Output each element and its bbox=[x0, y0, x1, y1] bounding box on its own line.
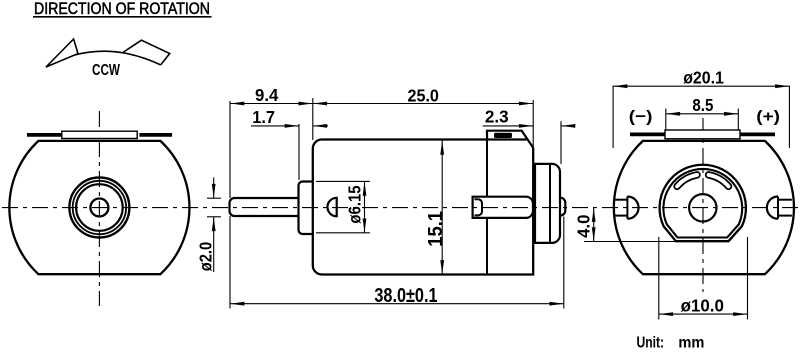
svg-text:4.0: 4.0 bbox=[573, 214, 593, 238]
end cap bbox=[535, 164, 560, 243]
svg-text:ø10.0: ø10.0 bbox=[681, 296, 725, 316]
svg-text:ø6.15: ø6.15 bbox=[345, 185, 365, 223]
CCW arrowhead bbox=[46, 39, 78, 67]
CCW flag bbox=[122, 40, 170, 65]
dim 38.0 extension right bbox=[563, 217, 565, 309]
vertical centerline bbox=[98, 111, 100, 306]
svg-text:ø20.1: ø20.1 bbox=[683, 68, 724, 88]
dim 38.0 bbox=[230, 303, 564, 305]
CCW rotation arrow arc bbox=[46, 51, 161, 67]
bushing bbox=[299, 182, 314, 235]
bearing boss inner bbox=[663, 169, 742, 238]
brush plate bbox=[62, 131, 137, 138]
dim extension line body left edge bbox=[312, 98, 314, 140]
left ear bbox=[614, 197, 639, 219]
dim 8.5 bbox=[666, 113, 739, 115]
motor body bbox=[313, 140, 533, 275]
dim 15.1 bbox=[441, 141, 443, 275]
dim 8.5 extension lines bbox=[665, 109, 667, 130]
svg-text:ø2.0: ø2.0 bbox=[196, 242, 216, 272]
dim 1.7 bbox=[251, 125, 299, 127]
svg-text:8.5: 8.5 bbox=[692, 95, 713, 115]
dim 1.7 extension line bushing front bbox=[298, 124, 300, 180]
rear shaft boss cylinder bbox=[473, 197, 533, 218]
dim Ø20.1 bbox=[613, 85, 789, 87]
dim Ø6.15 extension lines bbox=[316, 180, 370, 182]
svg-text:DIRECTION OF ROTATION: DIRECTION OF ROTATION bbox=[34, 0, 210, 18]
terminal tab bbox=[487, 131, 533, 148]
bearing boss outer bbox=[660, 165, 746, 241]
dim 4.0 extension bbox=[584, 241, 676, 243]
svg-text:25.0: 25.0 bbox=[408, 85, 440, 105]
svg-text:1.7: 1.7 bbox=[252, 107, 275, 127]
dim 25.0 bbox=[313, 103, 533, 105]
dim Ø10.0 extension lines bbox=[658, 237, 660, 319]
svg-text:CCW: CCW bbox=[92, 62, 120, 79]
vent slot right bbox=[709, 175, 729, 187]
vertical centerline bbox=[702, 118, 704, 292]
vent hole D-shape bbox=[327, 198, 336, 217]
dim 2.3 bbox=[483, 125, 534, 127]
brush plate edge thick line left bbox=[27, 133, 62, 137]
dim Ø20.1 extension lines bbox=[612, 86, 614, 149]
rear shaft bump bbox=[560, 198, 566, 216]
svg-text:2.3: 2.3 bbox=[485, 107, 509, 127]
bearing hole bbox=[689, 194, 716, 221]
dim Ø2.0 ticks bbox=[207, 197, 221, 199]
cylinder end face bbox=[475, 199, 483, 215]
brush plate edge thick line right bbox=[139, 133, 172, 137]
motor can body outline bbox=[614, 141, 794, 274]
shaft circle bbox=[90, 199, 108, 217]
right ear bbox=[767, 197, 792, 219]
dim Ø2.0 arrows bbox=[213, 177, 215, 198]
svg-text:mm: mm bbox=[678, 335, 704, 352]
bushing outer circle bbox=[69, 178, 129, 238]
horizontal centerline bbox=[2, 207, 798, 209]
end cap face line bbox=[549, 164, 551, 243]
motor can body outline bbox=[9, 141, 189, 274]
dim 9.4 extension line at shaft tip bbox=[229, 101, 231, 198]
dim 4.0 bbox=[593, 208, 595, 242]
svg-text:38.0±0.1: 38.0±0.1 bbox=[374, 285, 437, 307]
dim 2.3 extension line cap right bbox=[560, 121, 562, 164]
svg-text:(−): (−) bbox=[629, 109, 653, 126]
shaft bbox=[230, 198, 299, 216]
end bell boundary line bbox=[486, 140, 488, 197]
title underline bbox=[33, 16, 212, 18]
vent slot left bbox=[677, 175, 697, 187]
terminal mark bbox=[494, 133, 512, 138]
svg-text:15.1: 15.1 bbox=[425, 211, 447, 247]
svg-text:Unit:: Unit: bbox=[637, 335, 665, 352]
dim 9.4 bbox=[230, 103, 313, 105]
svg-text:(+): (+) bbox=[756, 109, 780, 126]
bushing inner circle bbox=[76, 184, 123, 231]
dim 2.3 extension line body right edge bbox=[532, 100, 534, 148]
bushing ring bbox=[73, 181, 126, 234]
dim Ø6.15 bbox=[364, 181, 366, 232]
dim Ø10.0 bbox=[659, 313, 748, 315]
brush plate edge thick line left bbox=[630, 132, 665, 136]
svg-text:9.4: 9.4 bbox=[255, 85, 279, 105]
brush plate edge thick line right bbox=[740, 132, 775, 136]
brush plate bbox=[665, 130, 740, 139]
